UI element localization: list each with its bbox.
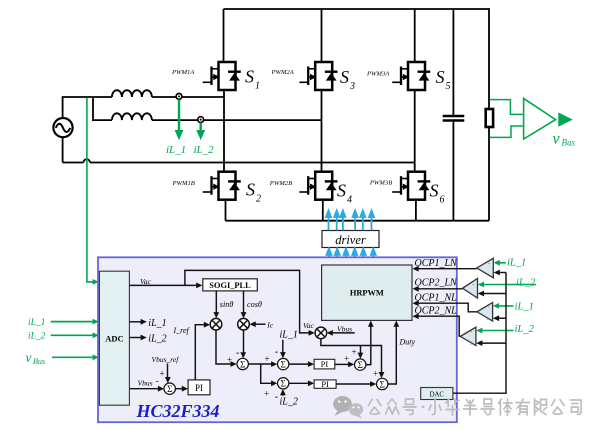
svg-text:+: + <box>264 389 269 399</box>
svg-text:OCP2_LN: OCP2_LN <box>415 277 459 288</box>
transistor S6 <box>392 172 430 200</box>
svg-text:Vbus: Vbus <box>337 325 352 334</box>
wire multiplier C out feedforward <box>321 338 382 374</box>
multiplier A sin <box>210 318 222 330</box>
inductor L1 <box>112 90 152 97</box>
wire cos theta <box>243 291 245 314</box>
arrow into ADC Vac <box>93 279 99 285</box>
svg-text:PWM2B: PWM2B <box>269 180 292 187</box>
wire L1 to leg1 <box>152 96 224 98</box>
svg-text:I_ref: I_ref <box>173 326 191 335</box>
wire vBus into ADC <box>52 356 95 358</box>
wire OCP2_NL from comparator 4 <box>417 316 461 336</box>
HRPWM block <box>322 265 412 320</box>
svg-text:iL_1: iL_1 <box>507 257 526 268</box>
PI box voltage loop <box>188 380 210 395</box>
svg-text:PWM1A: PWM1A <box>171 69 195 76</box>
svg-text:-: - <box>275 392 278 403</box>
svg-text:+: + <box>344 354 349 364</box>
wire green iL_2 into comparator 2 <box>482 284 536 286</box>
wire OCP2_LN from comparator 2 <box>417 288 463 290</box>
wire PI1 to sum2 <box>335 363 350 365</box>
ADC block <box>99 271 129 405</box>
wire green iL_2 into comparator 4 <box>480 330 514 332</box>
resistor load R <box>486 109 493 127</box>
svg-text:+: + <box>352 347 357 357</box>
transistor S1 <box>203 62 241 90</box>
summer 3 row2 out <box>377 378 388 389</box>
wire green Vac sense line <box>87 98 95 282</box>
wire multiplier B out to sum C top <box>243 330 245 354</box>
wire iL_2 into ADC <box>51 334 95 336</box>
svg-text:-: - <box>156 375 159 385</box>
wire leg3 mid S5-S6 <box>414 90 416 172</box>
capacitor C bus <box>443 115 465 117</box>
wire green sense bottom of load <box>490 126 523 137</box>
wire S6 bottom lead <box>415 200 417 221</box>
wire sum4 to PI2 <box>289 382 310 384</box>
svg-text:Vac: Vac <box>303 321 315 330</box>
svg-text:iL_2: iL_2 <box>516 278 536 289</box>
svg-text:+: + <box>160 369 165 379</box>
wire capacitor top lead <box>452 9 454 115</box>
svg-text:+: + <box>373 369 378 379</box>
svg-text:iL_2: iL_2 <box>28 332 46 342</box>
PI box row2 <box>314 380 336 388</box>
svg-text:S: S <box>337 181 346 201</box>
DAC block <box>421 388 453 400</box>
summer V <box>164 383 175 394</box>
wire leg1 mid S1-S2 <box>223 90 225 172</box>
node probe iL_2 <box>198 117 204 123</box>
wire sum3 riser to HRPWM <box>388 325 396 384</box>
svg-text:OCP1_NL: OCP1_NL <box>415 292 458 303</box>
wire right edge bottom <box>488 127 490 221</box>
wire leg2 mid S3-S4 <box>321 90 323 172</box>
wire PI2 to sum3 <box>336 383 372 385</box>
wire green iL_1 into comparator 3 <box>497 305 514 307</box>
svg-text:ADC: ADC <box>105 334 123 344</box>
wire hop over green line <box>84 159 90 162</box>
svg-text:PWM1B: PWM1B <box>172 180 195 187</box>
svg-text:Bus: Bus <box>33 357 45 366</box>
wire capacitor bottom lead <box>452 122 454 221</box>
wire sum V to PI v <box>175 388 184 390</box>
transistor S3 <box>299 62 337 90</box>
wire Vac branch to multiplier C <box>185 270 311 333</box>
svg-text:DAC: DAC <box>430 391 445 398</box>
wire green iL_1 into comparator 1 <box>498 262 506 264</box>
svg-text:3: 3 <box>349 81 355 92</box>
svg-text:+: + <box>227 354 232 364</box>
svg-text:+: + <box>487 305 490 310</box>
wire Ic into multiplier B <box>254 323 266 325</box>
transistor S5 <box>392 62 430 90</box>
wire Vac ADC to SOGI_PLL <box>130 284 199 286</box>
wire Vbus ADC to sum V <box>130 388 160 390</box>
transistor S4 <box>299 172 337 200</box>
svg-text:PWM3B: PWM3B <box>369 180 392 187</box>
svg-text:iL_1: iL_1 <box>515 301 534 312</box>
multiplier C feedforward <box>315 327 327 339</box>
comparator 2 <box>463 279 478 299</box>
wire S2 bottom lead <box>225 200 227 221</box>
wire PI v to multiplier A <box>195 325 206 380</box>
svg-text:SOGI_PLL: SOGI_PLL <box>209 281 251 290</box>
svg-text:+: + <box>265 354 270 364</box>
svg-text:S: S <box>340 67 349 87</box>
wire S3 top lead <box>321 9 323 62</box>
svg-text:PWM2A: PWM2A <box>271 69 295 76</box>
svg-text:iL_1: iL_1 <box>148 318 166 329</box>
summer 2 row1 out <box>355 359 366 370</box>
svg-text:v: v <box>553 131 561 148</box>
svg-text:PI: PI <box>321 359 329 369</box>
wire DAC threshold bus <box>453 273 506 394</box>
svg-text:iL_1: iL_1 <box>280 330 298 341</box>
summer C reference <box>237 358 248 369</box>
svg-text:PWM3A: PWM3A <box>366 71 390 78</box>
wire iL_1 feedback into sum1 <box>282 340 284 354</box>
svg-text:S: S <box>246 180 255 200</box>
inductor L2 <box>112 113 152 120</box>
comparator 3 <box>477 303 493 322</box>
svg-text:sinθ: sinθ <box>220 300 234 309</box>
svg-text:Vbus: Vbus <box>138 379 153 388</box>
wire green sense top of load <box>490 100 523 115</box>
multiplier B cos <box>238 318 250 330</box>
SOGI_PLL box <box>203 279 257 291</box>
wire bus branch comp4 <box>480 342 506 344</box>
arrow vBus output <box>558 112 573 126</box>
svg-text:1: 1 <box>255 81 260 92</box>
arrows blue driver to bridge <box>326 211 374 231</box>
svg-text:2: 2 <box>256 194 261 205</box>
node probe iL_1 <box>176 94 182 100</box>
watermark wechat icon <box>333 396 363 419</box>
summer 4 row2 <box>278 378 289 389</box>
wire OCP1_LN from comparator 1 <box>417 268 477 270</box>
svg-text:-: - <box>275 347 278 358</box>
svg-text:S: S <box>436 67 445 87</box>
svg-text:Duty: Duty <box>399 337 416 346</box>
driver box <box>322 231 379 248</box>
wire multiplier A out to sum C <box>216 330 233 364</box>
arrow current probe iL_1 <box>178 100 180 132</box>
svg-text:S: S <box>430 181 439 201</box>
svg-text:HRPWM: HRPWM <box>350 289 384 298</box>
svg-text:driver: driver <box>335 233 366 247</box>
svg-text:OCP1_LN: OCP1_LN <box>415 258 459 269</box>
svg-text:iL_2: iL_2 <box>194 144 215 156</box>
arrow current probe iL_2 <box>199 123 201 132</box>
wire bus branch comp3 <box>497 317 506 319</box>
wire bus branch comp2 <box>482 293 506 295</box>
svg-text:Vac: Vac <box>140 277 152 286</box>
wire Vbus stub into multiplier C <box>331 332 355 334</box>
AC source Vin <box>53 118 72 137</box>
watermark text 公众号·小华半导体有限公司 <box>369 399 582 415</box>
svg-text:5: 5 <box>446 81 451 92</box>
wire L2 to leg2 <box>152 119 322 121</box>
svg-text:Bus: Bus <box>562 138 576 148</box>
PI box row1 <box>314 359 335 369</box>
svg-text:iL_2: iL_2 <box>515 324 535 335</box>
svg-text:iL_1: iL_1 <box>166 144 186 156</box>
svg-text:iL_1: iL_1 <box>28 318 45 328</box>
svg-text:v: v <box>26 350 32 365</box>
wire branch down to sum 4 <box>261 364 274 383</box>
wire sum1 to PI1 <box>289 363 310 365</box>
svg-text:4: 4 <box>347 195 352 206</box>
wire iL_2 stub from ADC <box>130 337 143 339</box>
svg-text:HC32F334: HC32F334 <box>136 401 220 421</box>
wire sum2 riser to HRPWM <box>366 325 371 365</box>
wire Vbus_ref into sum V <box>167 364 169 380</box>
wire source left column <box>63 97 112 163</box>
wire S1 top lead <box>223 9 225 62</box>
wire S5 top lead <box>414 9 416 62</box>
wire bottom neutral with hop <box>63 162 415 164</box>
wire iL_1 into ADC <box>51 321 95 323</box>
svg-text:-: - <box>236 348 239 359</box>
svg-text:+: + <box>470 330 473 335</box>
svg-text:cosθ: cosθ <box>247 300 262 309</box>
wire feedforward branch to sum2 top <box>360 346 362 355</box>
svg-text:PI: PI <box>321 379 329 389</box>
wire iL_2 feedback into sum4 <box>282 393 284 396</box>
op-amp vBus sense <box>524 98 556 139</box>
svg-text:+: + <box>472 284 475 289</box>
svg-text:6: 6 <box>440 195 445 206</box>
wire iL_1 stub from ADC <box>130 321 143 323</box>
svg-text:iL_2: iL_2 <box>148 334 166 345</box>
svg-text:S: S <box>245 67 254 87</box>
svg-text:Vbus_ref: Vbus_ref <box>152 355 180 364</box>
svg-text:+: + <box>488 262 491 267</box>
MCU box HC32F334 <box>98 257 457 422</box>
wire bus branch comp1 <box>498 272 506 274</box>
comparator input marks <box>470 262 491 348</box>
wire top rail <box>224 8 490 10</box>
svg-text:OCP2_NL: OCP2_NL <box>415 305 458 316</box>
wire OCP1_NL from comparator 3 <box>417 303 478 312</box>
wire bottom rail <box>226 220 490 222</box>
wire sin theta <box>215 291 217 314</box>
comparator 4 <box>460 327 476 345</box>
wire S4 bottom lead <box>322 200 324 221</box>
comparator 1 <box>477 258 494 278</box>
svg-text:Ic: Ic <box>266 321 273 330</box>
transistor S2 <box>203 172 241 200</box>
wire sum C to sum 1 <box>248 363 273 365</box>
svg-text:PI: PI <box>195 383 203 393</box>
wire branch to inductor 2 <box>93 97 112 120</box>
arrows blue HRPWM to driver <box>327 249 376 265</box>
svg-text:iL_2: iL_2 <box>280 397 298 408</box>
wire right edge top <box>488 8 490 109</box>
summer 1 row1 <box>278 358 289 369</box>
